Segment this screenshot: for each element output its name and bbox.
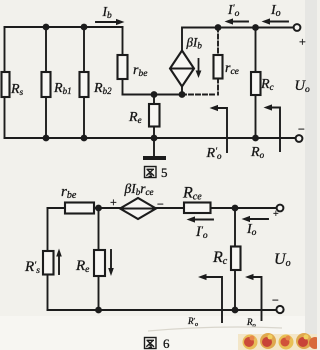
svg-text:5: 5 [161, 165, 168, 180]
svg-text:−: − [298, 122, 305, 136]
svg-text:+: + [299, 35, 306, 49]
svg-text:−: − [157, 197, 164, 211]
svg-text:−: − [272, 293, 279, 307]
svg-text:+: + [273, 209, 279, 220]
svg-text:+: + [110, 195, 117, 209]
svg-text:6: 6 [163, 336, 170, 350]
